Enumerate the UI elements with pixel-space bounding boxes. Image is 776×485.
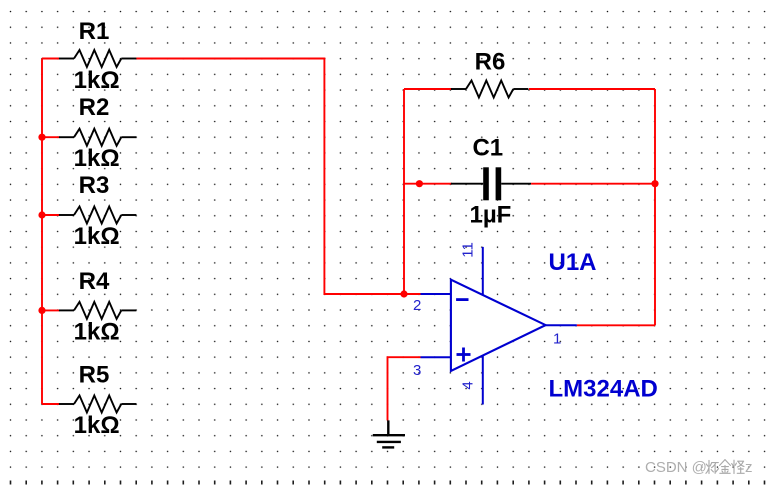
svg-text:1kΩ: 1kΩ [74,318,120,345]
resistor R5 [59,361,136,439]
svg-text:R4: R4 [79,268,110,295]
svg-text:1kΩ: 1kΩ [74,145,120,172]
wire R1 output to inverting input [136,59,404,295]
svg-text:3: 3 [413,362,421,379]
minus sign [456,298,468,301]
node junction at R2 tap [38,134,45,141]
svg-text:R1: R1 [79,18,110,45]
capacitor C1 [451,134,531,228]
resistor R2 [59,94,136,172]
resistor R1 [59,18,136,94]
pin 3 lead [421,356,451,358]
svg-text:CSDN @: CSDN @ [645,459,707,476]
pin 2 lead [421,293,451,295]
svg-text:z: z [745,459,753,476]
svg-text:R6: R6 [475,48,506,75]
svg-text:2: 2 [413,297,421,314]
wire R5 left stub [42,403,60,405]
op-amp U1A LM324AD [413,242,658,404]
svg-text:R3: R3 [79,172,110,199]
resistor R3 [59,172,136,250]
wire C1 left [404,183,452,185]
svg-text:C1: C1 [472,134,503,161]
wire R3 left stub [42,214,60,216]
node junction at R4 tap [38,307,45,314]
svg-text:11: 11 [460,242,477,258]
svg-text:U1A: U1A [549,249,597,276]
wire output to right bus [577,324,655,326]
wire R4 left stub [42,309,60,311]
resistor R4 [59,268,136,346]
svg-text:1kΩ: 1kΩ [74,67,120,94]
watermark [645,459,753,476]
svg-text:1µF: 1µF [469,201,511,228]
svg-text:1: 1 [553,331,561,348]
node junction on C1 left wire [416,180,423,187]
svg-text:LM324AD: LM324AD [549,375,658,402]
wire non-inverting to ground [388,357,421,420]
wire R6 right [529,88,655,90]
wire R2 left stub [42,136,60,138]
wire R6 left [404,88,452,90]
svg-text:R2: R2 [79,94,110,121]
bottom grid dash row [10,481,766,485]
resistor R6 [451,48,528,97]
triangle body [451,280,546,371]
svg-text:4: 4 [460,381,477,389]
svg-text:R5: R5 [79,361,110,388]
wire left vertical bus [41,59,43,405]
wire middle vertical (feedback left) [403,89,405,294]
plus sign [457,353,471,356]
pin 11 stub [482,247,484,296]
wire C1 right [531,183,655,185]
ground symbol [373,420,405,447]
wire right vertical (feedback bus) [654,89,656,325]
svg-text:1kΩ: 1kΩ [74,412,120,439]
wire R1 left stub [42,58,60,60]
node junction at right bus / C1 [651,180,658,187]
svg-text:1kΩ: 1kΩ [74,223,120,250]
node junction at inverting input [400,290,407,297]
node junction at R3 tap [38,211,45,218]
wire inverting stub (red) [404,293,421,295]
pin 4 stub [482,355,484,405]
output lead pin 1 [546,324,577,326]
